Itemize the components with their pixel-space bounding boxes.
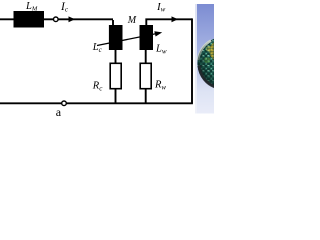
mesh grid over sphere: [198, 37, 250, 89]
svg-text:Ic: Ic: [60, 1, 69, 14]
svg-text:a: a: [56, 105, 62, 119]
current arrow Iw: [172, 16, 179, 22]
wire: left column drop to primary coil: [112, 20, 114, 25]
inductor LM (black bar): [14, 11, 45, 28]
wire: Rw to bottom rail: [145, 89, 147, 104]
wire: right vertical down: [191, 18, 193, 103]
coil Lc (primary, black bar): [109, 25, 123, 50]
yellow contour region: [210, 42, 226, 61]
wire: top-left horizontal: [0, 18, 113, 20]
svg-text:Iw: Iw: [156, 1, 166, 14]
svg-text:LM: LM: [25, 1, 38, 13]
node circle on top wire: [54, 17, 59, 22]
sphere mesh body: [198, 37, 250, 89]
pale lit band along upper-left boundary: [198, 41, 211, 61]
wire: bottom horizontal: [0, 102, 193, 104]
wire: Lw to Rw link: [145, 50, 147, 63]
resistor Rw (white box): [140, 63, 151, 88]
dark bottom rim: [198, 65, 218, 89]
mutual coupling arrow M: [97, 33, 158, 45]
left pale strip: [195, 4, 197, 114]
wire: secondary top riser and top-right run: [146, 19, 192, 25]
svg-text:Lc: Lc: [92, 42, 103, 54]
sphere shading: [198, 37, 250, 89]
resistor Rc (white box): [110, 63, 121, 88]
photo: FEM sphere simulation screenshot: [195, 4, 250, 114]
svg-text:M: M: [127, 15, 137, 26]
svg-text:Rw: Rw: [154, 80, 166, 92]
wire: Lc to Rc link: [115, 50, 117, 63]
node circle a on bottom wire: [62, 101, 67, 106]
wire: Rc to bottom rail: [115, 89, 117, 104]
svg-text:Lw: Lw: [155, 44, 167, 56]
coil Lw (secondary, black bar): [140, 25, 154, 50]
current arrow Ic: [69, 16, 76, 22]
svg-text:Rc: Rc: [92, 80, 103, 92]
